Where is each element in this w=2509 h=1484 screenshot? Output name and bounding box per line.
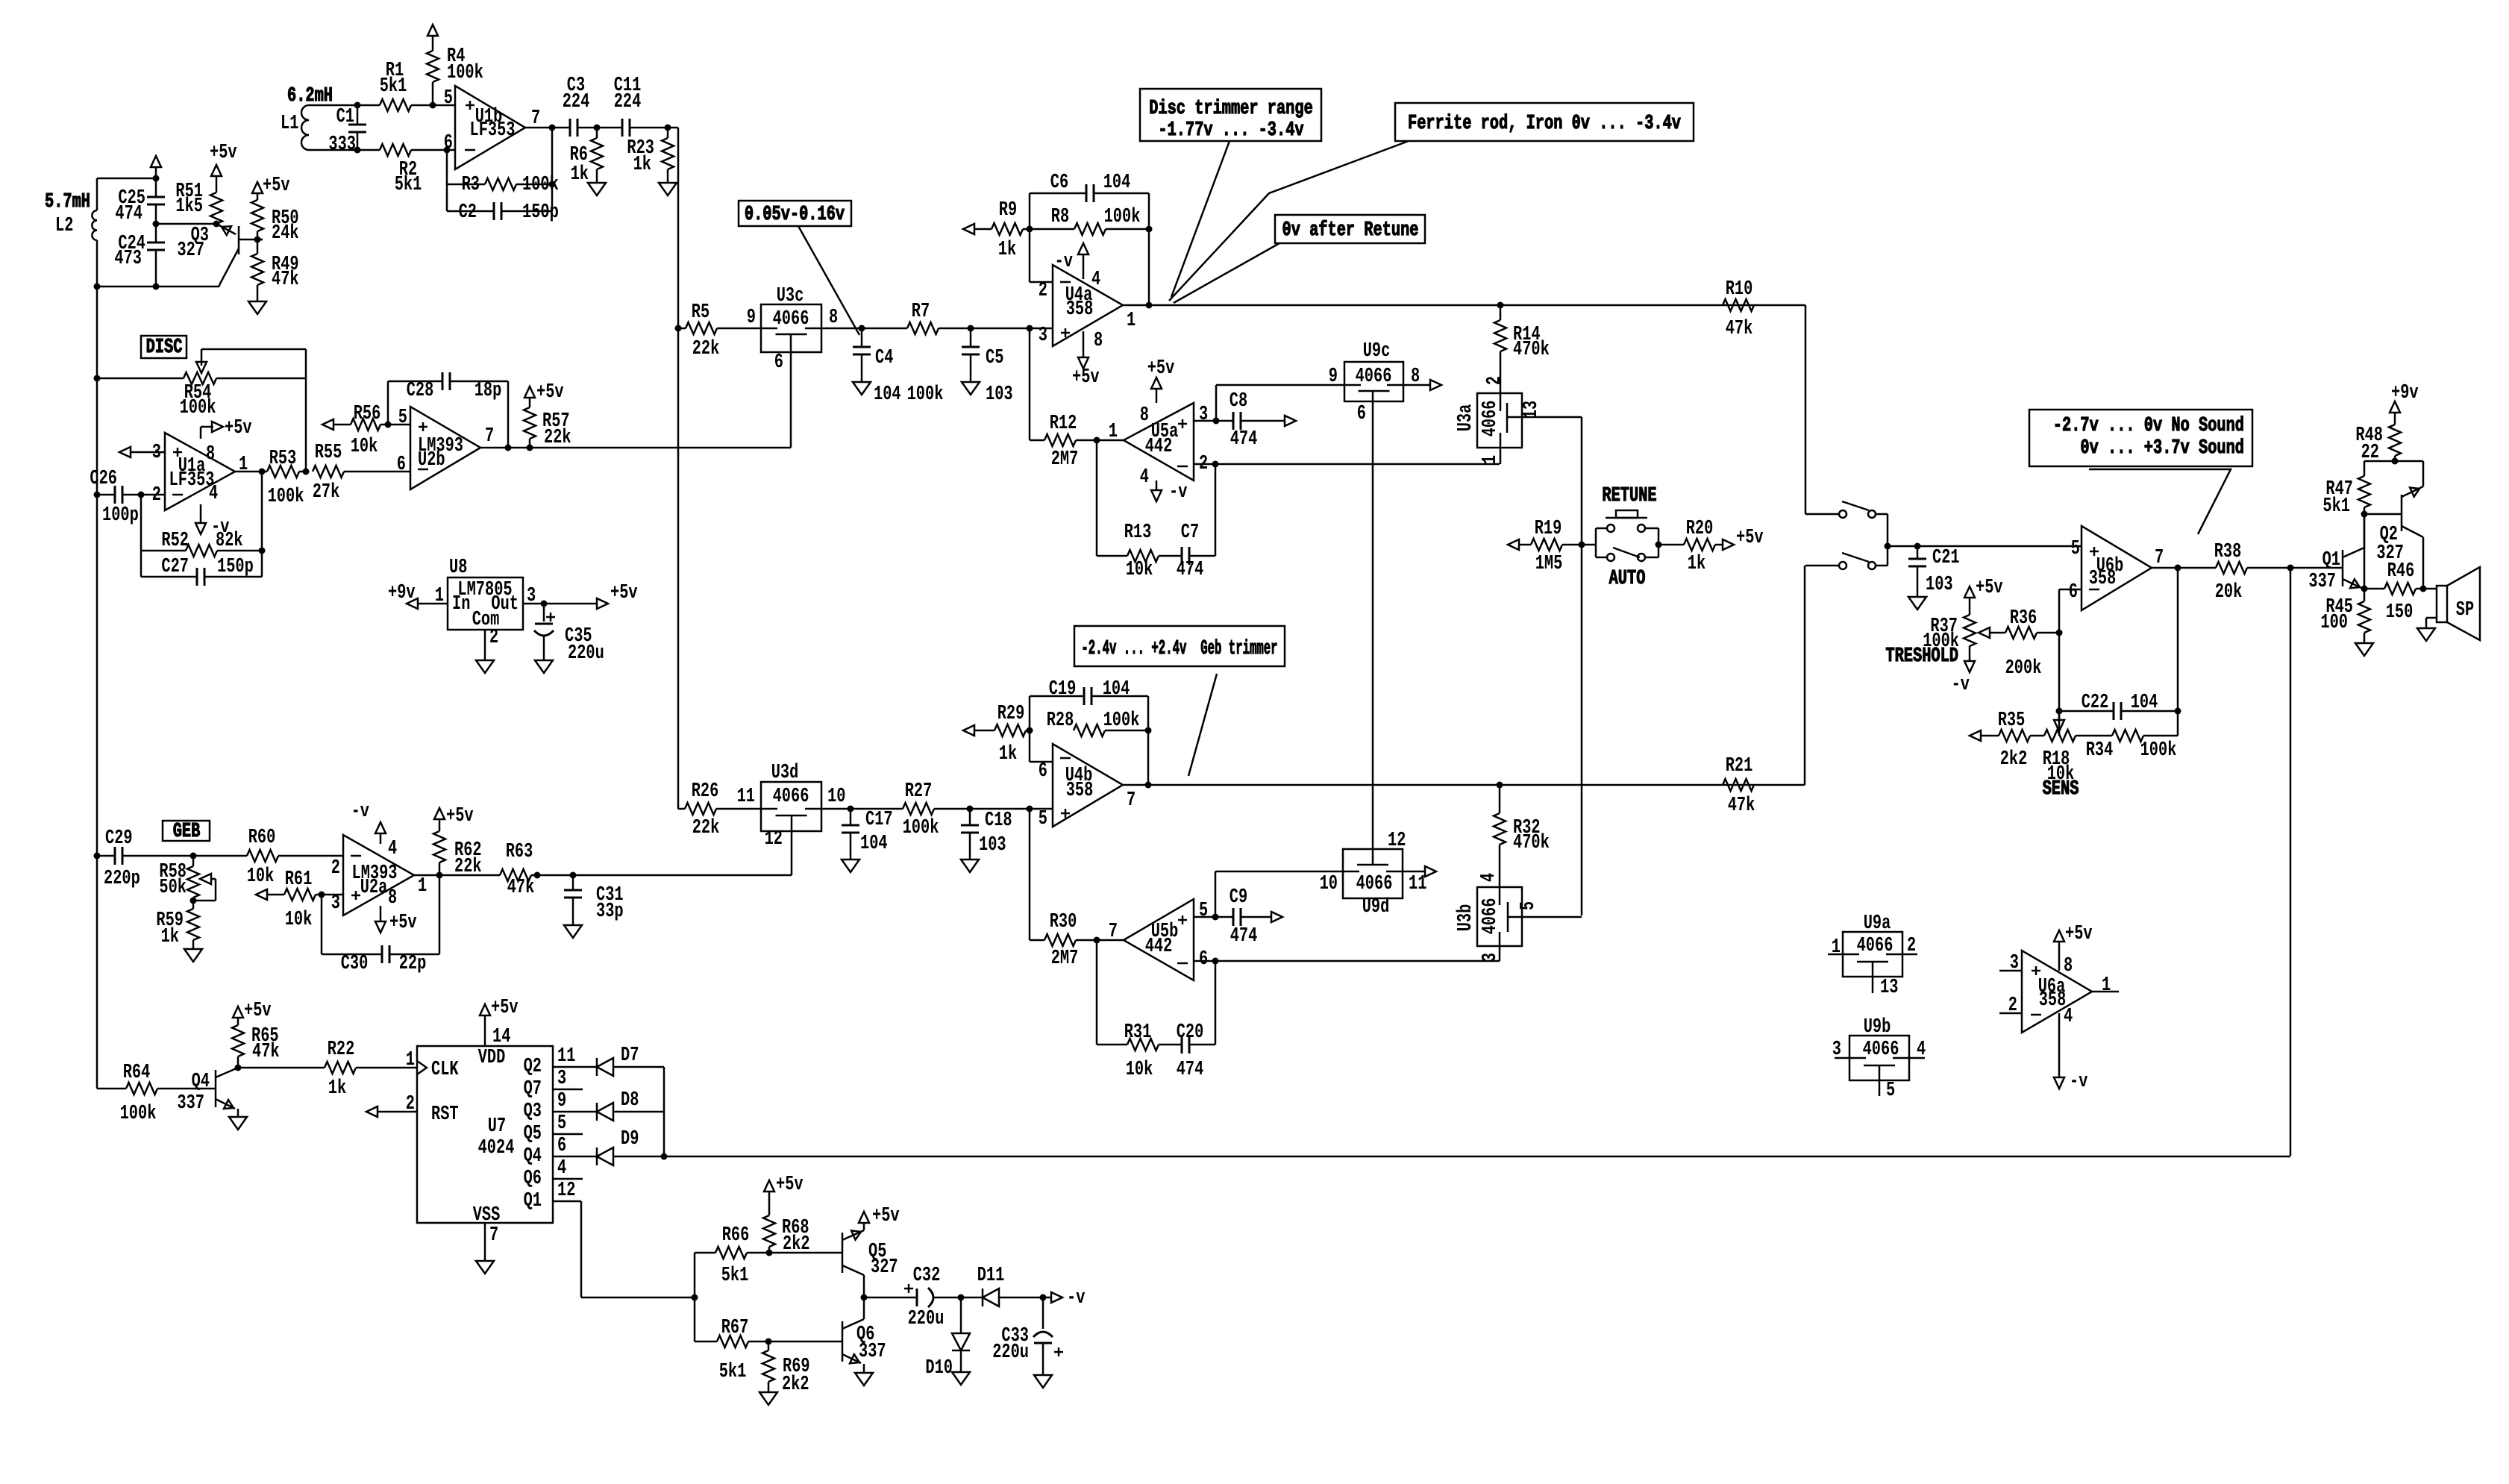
svg-text:9: 9: [557, 1090, 566, 1112]
svg-text:C21: C21: [1932, 547, 1960, 569]
leader line Sound: [2089, 469, 2231, 534]
resistor R57: [524, 407, 571, 451]
wire C6 right to output: [1146, 193, 1153, 309]
wire U4b pin5 node down: [1029, 809, 1031, 940]
wire Q5 pin5: [553, 1112, 583, 1135]
svg-text:6: 6: [2069, 581, 2078, 604]
svg-text:Q7: Q7: [524, 1078, 542, 1101]
svg-text:104: 104: [860, 833, 888, 855]
wire U3d gate stub: [791, 831, 793, 875]
resistor R8: [1030, 206, 1153, 235]
svg-text:2: 2: [1484, 376, 1506, 385]
wire U3c to node: [821, 325, 865, 332]
svg-text:47k: 47k: [272, 269, 299, 291]
resistor R63: [500, 841, 573, 899]
resistor R28: [1047, 710, 1152, 736]
wire node to R51/Q3: [156, 221, 220, 228]
transistor Q1: [2290, 514, 2364, 593]
resistor R35: [1970, 710, 2030, 771]
svg-text:R52: R52: [161, 530, 189, 552]
wire U5b pin6 row: [1194, 958, 1500, 965]
svg-text:13: 13: [1520, 401, 1543, 419]
ground below C5: [962, 382, 980, 395]
svg-text:333: 333: [328, 134, 356, 156]
svg-text:24k: 24k: [272, 222, 299, 245]
svg-text:470k: 470k: [1513, 832, 1550, 854]
counter U7 4024: [406, 1046, 553, 1227]
svg-text:R8: R8: [1051, 206, 1069, 228]
svg-text:104: 104: [1103, 678, 1130, 701]
svg-text:12: 12: [765, 828, 783, 851]
ground below D10: [952, 1372, 970, 1385]
svg-text:3: 3: [527, 585, 536, 607]
svg-text:2k2: 2k2: [782, 1374, 809, 1396]
ground below R6: [588, 183, 606, 195]
resistor R7: [862, 301, 974, 406]
svg-text:-2.7v ... 0v No Sound: -2.7v ... 0v No Sound: [2053, 415, 2244, 437]
svg-text:13: 13: [1880, 977, 1898, 999]
resistor R21: [1723, 755, 1755, 817]
svg-text:D10: D10: [925, 1357, 953, 1380]
op-amp U5b: [1109, 899, 1208, 980]
svg-text:Q1: Q1: [524, 1190, 542, 1212]
svg-text:-2.4v ... +2.4v Geb trimmer: -2.4v ... +2.4v Geb trimmer: [1081, 638, 1277, 660]
resistor R3: [447, 174, 559, 196]
wire U3c gate stub: [790, 352, 792, 448]
power +5v R20: [1723, 527, 1764, 550]
speaker SP: [2426, 567, 2480, 640]
svg-text:6: 6: [444, 132, 453, 154]
svg-text:5k1: 5k1: [380, 75, 407, 98]
capacitor C25: [115, 178, 165, 228]
analog switch U3c: [747, 285, 838, 374]
ground Com U8: [476, 627, 498, 673]
svg-text:4: 4: [557, 1157, 566, 1180]
capacitor C8: [1230, 390, 1285, 451]
power +5v U7: [480, 997, 519, 1048]
input arrow pin3 U1a: [119, 447, 165, 457]
wire long bottom: [664, 1156, 2290, 1158]
svg-text:C26: C26: [90, 468, 117, 490]
resistor R50: [251, 200, 299, 245]
wire retune bus: [1522, 417, 1585, 915]
svg-text:+5v: +5v: [1976, 577, 2003, 599]
svg-text:R28: R28: [1047, 710, 1074, 732]
resistor R59: [156, 901, 199, 949]
svg-text:1: 1: [406, 1049, 415, 1071]
wire pin6: [447, 149, 455, 151]
resistor R52: [141, 530, 266, 557]
svg-text:7: 7: [2155, 547, 2164, 569]
input arrow RST: [366, 1106, 417, 1117]
wire output U1b: [525, 127, 570, 129]
svg-text:1M5: 1M5: [1535, 553, 1563, 575]
wire bottom rail: [94, 284, 220, 290]
resistor R45: [2320, 589, 2370, 643]
power +5v U5a: [1147, 357, 1175, 403]
svg-text:Disc trimmer range: Disc trimmer range: [1149, 98, 1313, 120]
svg-text:C29: C29: [105, 827, 133, 850]
svg-text:1: 1: [1109, 421, 1118, 443]
capacitor C32: [864, 1265, 965, 1330]
svg-text:1k: 1k: [998, 239, 1016, 261]
svg-text:+5v: +5v: [872, 1205, 900, 1227]
svg-text:C7: C7: [1181, 522, 1199, 544]
svg-text:VSS: VSS: [473, 1204, 501, 1227]
svg-text:R12: R12: [1050, 413, 1077, 435]
switch RETUNE: [1582, 485, 1684, 561]
svg-text:33p: 33p: [596, 901, 624, 923]
svg-text:224: 224: [614, 91, 642, 113]
svg-text:3: 3: [1199, 404, 1208, 426]
svg-text:LF353: LF353: [470, 119, 516, 142]
ground VSS U7: [476, 1223, 498, 1274]
power +5v pin8 U1a: [201, 417, 252, 466]
svg-text:14: 14: [492, 1026, 510, 1048]
op-amp U2b: [397, 407, 494, 489]
resistor R49: [251, 239, 299, 301]
svg-text:337: 337: [177, 1092, 204, 1115]
wire to U9c: [1216, 385, 1344, 421]
svg-text:R56: R56: [354, 403, 381, 425]
svg-text:D11: D11: [977, 1265, 1005, 1287]
svg-text:Q2: Q2: [524, 1056, 542, 1078]
resistor R32: [1494, 785, 1550, 887]
svg-text:0v after Retune: 0v after Retune: [1282, 219, 1419, 242]
callout Ferrite rod: [1395, 103, 1694, 141]
svg-text:2M7: 2M7: [1051, 948, 1079, 970]
svg-text:C19: C19: [1049, 678, 1077, 701]
svg-text:100k: 100k: [180, 397, 216, 419]
svg-text:+5v: +5v: [776, 1174, 804, 1196]
inductor L1: [281, 105, 357, 150]
wire base row: [2361, 514, 2368, 592]
resistor R69: [762, 1341, 810, 1396]
svg-text:-v: -v: [351, 801, 369, 823]
analog switch U9a: [1828, 912, 1917, 999]
capacitor C5: [962, 328, 1013, 406]
svg-text:100k: 100k: [2140, 739, 2177, 762]
svg-text:2: 2: [1907, 935, 1916, 957]
transistor Q5: [842, 1223, 898, 1301]
label 6.2mH: [287, 85, 333, 107]
svg-text:R38: R38: [2214, 541, 2242, 563]
svg-text:7: 7: [1127, 789, 1136, 812]
capacitor C22: [2059, 692, 2178, 720]
capacitor C9: [1230, 886, 1271, 948]
svg-text:1: 1: [418, 875, 427, 898]
svg-text:R22: R22: [328, 1039, 355, 1061]
resistor R68: [763, 1215, 810, 1256]
svg-text:8: 8: [1140, 404, 1149, 427]
analog switch U9b: [1832, 1016, 1926, 1102]
power +5v R50: [252, 175, 290, 200]
svg-text:R19: R19: [1535, 518, 1562, 540]
ground below C33: [1034, 1375, 1052, 1388]
svg-text:Q4: Q4: [192, 1071, 210, 1093]
svg-text:47k: 47k: [1726, 318, 1753, 340]
svg-text:R21: R21: [1726, 755, 1753, 777]
svg-text:4066: 4066: [1857, 935, 1894, 957]
label AUTO: [1609, 568, 1646, 590]
resistor R60: [193, 827, 343, 888]
wire U5a pin3 row: [1194, 418, 1233, 425]
svg-text:0.05v-0.16v: 0.05v-0.16v: [745, 204, 845, 226]
svg-text:C27: C27: [161, 556, 189, 578]
power -v U6a: [2054, 1006, 2087, 1093]
svg-text:R26: R26: [692, 780, 719, 803]
ground below C35: [535, 660, 553, 673]
svg-text:3: 3: [2010, 952, 2019, 974]
resistor R61: [256, 868, 343, 931]
wire U9 gate line: [1372, 391, 1374, 865]
resistor R19: [1508, 518, 1582, 575]
resistor R56: [322, 403, 410, 458]
svg-text:4: 4: [1478, 873, 1500, 882]
svg-text:50k: 50k: [159, 877, 187, 899]
svg-text:R27: R27: [905, 780, 933, 803]
resistor R2: [357, 144, 451, 196]
svg-text:U7: U7: [488, 1115, 506, 1138]
svg-text:4066: 4066: [1479, 401, 1502, 437]
resistor R62: [433, 831, 482, 879]
regulator U8 LM7805: [448, 557, 523, 631]
svg-text:100p: 100p: [102, 504, 139, 527]
diode D9: [597, 1128, 664, 1165]
ground below C31: [564, 925, 582, 938]
svg-text:R67: R67: [721, 1317, 749, 1339]
svg-text:RST: RST: [431, 1103, 459, 1126]
node DISC pot: [94, 375, 101, 382]
svg-text:5: 5: [1199, 900, 1208, 922]
capacitor C27: [141, 556, 262, 586]
ground below C18: [961, 860, 979, 872]
ground below R45: [2355, 643, 2373, 656]
resistor R48: [2355, 425, 2401, 465]
op-amp U6a: [1999, 951, 2119, 1033]
svg-text:4: 4: [388, 838, 397, 860]
svg-text:L1: L1: [281, 113, 298, 135]
svg-text:22k: 22k: [692, 817, 720, 839]
resistor R38: [2152, 541, 2294, 604]
svg-text:47k: 47k: [1728, 795, 1755, 817]
svg-text:-1.77v ... -3.4v: -1.77v ... -3.4v: [1158, 119, 1303, 142]
diode D11: [961, 1265, 1047, 1306]
resistor R6: [570, 128, 603, 186]
svg-text:473: 473: [114, 248, 142, 270]
wire U5a pin2 row: [1194, 461, 1500, 468]
wire Q6 pin4: [553, 1157, 583, 1180]
ground below R59: [184, 949, 202, 962]
analog switch U3d: [737, 762, 846, 851]
resistor R65: [232, 1025, 280, 1063]
svg-text:3: 3: [1039, 325, 1047, 347]
callout No Sound Sound: [2029, 410, 2252, 466]
svg-text:5k1: 5k1: [395, 174, 422, 196]
wire R67 to Q6: [768, 1341, 842, 1343]
svg-text:442: 442: [1145, 436, 1173, 458]
svg-text:474: 474: [1230, 925, 1258, 948]
arrow C8 out: [1285, 416, 1296, 426]
svg-text:C2: C2: [459, 201, 477, 224]
svg-text:12: 12: [1388, 830, 1406, 852]
power +5v R62: [434, 805, 474, 831]
svg-text:82k: 82k: [216, 530, 243, 552]
wire R68 to Q5: [769, 1252, 842, 1254]
svg-text:5.7mH: 5.7mH: [45, 191, 90, 213]
svg-text:+5v: +5v: [446, 805, 474, 827]
main signal bus: [675, 128, 682, 809]
svg-text:7: 7: [1109, 921, 1118, 943]
capacitor C21: [1908, 546, 1960, 597]
svg-text:220p: 220p: [104, 868, 140, 890]
analog switch U9d: [1320, 830, 1427, 918]
svg-text:5k1: 5k1: [721, 1265, 749, 1287]
analog switch U9c: [1329, 340, 1420, 425]
wire pin6 U6b: [2056, 589, 2082, 736]
svg-text:5: 5: [1039, 808, 1047, 830]
svg-text:4066: 4066: [1479, 898, 1502, 935]
svg-text:27k: 27k: [313, 481, 340, 504]
power arrow R4: [427, 25, 438, 51]
potentiometer R18 wiper: [2054, 711, 2064, 731]
diode D10: [925, 1297, 970, 1380]
svg-text:327: 327: [871, 1256, 898, 1279]
capacitor C11: [597, 75, 671, 137]
wire U4a output row: [1123, 302, 1805, 309]
wire diode bus: [661, 1067, 668, 1160]
svg-text:10k: 10k: [1126, 1059, 1153, 1081]
wire bus to R26: [678, 808, 685, 810]
svg-text:20k: 20k: [2215, 581, 2243, 604]
wire to U4a pin3: [971, 325, 1053, 332]
svg-text:150: 150: [2386, 601, 2414, 624]
ground below C21: [1908, 597, 1926, 610]
wire pin5: [433, 104, 455, 107]
svg-text:18p: 18p: [474, 380, 502, 402]
svg-text:+5v: +5v: [244, 1000, 272, 1022]
wire Q1 pin12: [553, 1180, 695, 1297]
wire U3a pin1 stub: [1500, 433, 1502, 464]
transistor Q3: [177, 224, 263, 287]
svg-text:C18: C18: [985, 810, 1012, 832]
svg-text:D9: D9: [621, 1128, 639, 1150]
wire U2a out: [414, 874, 500, 877]
svg-text:U2a: U2a: [360, 877, 388, 899]
svg-text:7: 7: [531, 107, 540, 130]
svg-text:6: 6: [1357, 403, 1366, 425]
wire output to bus: [668, 127, 678, 129]
svg-text:220u: 220u: [908, 1308, 945, 1330]
svg-text:8: 8: [206, 443, 215, 466]
op-amp U1b: [444, 86, 540, 169]
power -v U4a: [1055, 243, 1101, 291]
svg-text:C17: C17: [865, 809, 893, 831]
wire U4b output row: [1123, 782, 1805, 789]
analog switch U3a: [1455, 376, 1543, 464]
wire R21 to switch: [1804, 566, 1806, 785]
svg-text:8: 8: [388, 887, 397, 910]
wire Q3 pin9: [553, 1090, 597, 1112]
svg-text:In: In: [452, 593, 470, 616]
resistor R53: [235, 448, 310, 508]
power +5v R68: [764, 1174, 804, 1215]
svg-text:-v: -v: [1067, 1287, 1085, 1309]
svg-text:-v: -v: [1169, 481, 1187, 504]
ground below Q4: [229, 1117, 247, 1130]
wire feedback right: [549, 125, 556, 212]
svg-text:2: 2: [489, 627, 498, 649]
svg-text:GEB: GEB: [173, 821, 201, 843]
power +5v U6a: [2054, 923, 2093, 977]
capacitor C2: [447, 201, 559, 224]
svg-text:R55: R55: [315, 442, 342, 464]
capacitor C29: [97, 827, 197, 890]
svg-text:358: 358: [2089, 568, 2117, 590]
svg-text:4066: 4066: [1863, 1039, 1899, 1061]
diode D7: [597, 1045, 664, 1076]
svg-text:4: 4: [2064, 1006, 2073, 1028]
resistor R47: [2322, 461, 2370, 518]
power -v U2a: [351, 801, 398, 860]
transistor Q4: [177, 1056, 241, 1117]
svg-text:1: 1: [1127, 310, 1136, 332]
svg-text:C32: C32: [913, 1265, 941, 1287]
op-amp U2a: [331, 835, 427, 915]
svg-text:3: 3: [557, 1068, 566, 1090]
svg-text:327: 327: [177, 239, 204, 262]
arrow U9d out: [1403, 866, 1436, 877]
svg-text:R5: R5: [692, 301, 710, 324]
svg-text:C30: C30: [341, 953, 369, 975]
wire Q7 pin3: [553, 1068, 583, 1090]
capacitor C17: [842, 809, 893, 860]
svg-text:Q6: Q6: [524, 1168, 542, 1190]
wire Q4 pin6: [553, 1135, 597, 1157]
net label DISC box: [141, 336, 187, 359]
resistor R23: [627, 128, 674, 183]
svg-text:C5: C5: [986, 347, 1003, 369]
resistor R22: [238, 1039, 417, 1100]
capacitor C19: [1030, 678, 1148, 730]
svg-text:R7: R7: [912, 301, 930, 323]
wire to U9d: [1215, 871, 1343, 917]
svg-text:R60: R60: [248, 827, 276, 849]
resistor R10: [1723, 278, 1754, 340]
svg-text:U9d: U9d: [1362, 896, 1390, 918]
svg-text:10: 10: [1320, 873, 1338, 895]
node GEB row: [94, 853, 101, 860]
resistor R55: [313, 442, 410, 504]
svg-text:+5v: +5v: [610, 582, 638, 604]
svg-text:11: 11: [557, 1045, 575, 1068]
svg-text:470k: 470k: [1513, 339, 1550, 361]
svg-text:4: 4: [1091, 269, 1100, 291]
op-amp U1a: [152, 433, 248, 510]
svg-text:4066: 4066: [1356, 366, 1392, 388]
left bus wire: [96, 287, 98, 1089]
svg-text:47k: 47k: [252, 1041, 280, 1063]
svg-text:U3b: U3b: [1455, 904, 1477, 932]
capacitor C18: [961, 809, 1012, 860]
wire U3b pin3 stub: [1499, 932, 1501, 961]
potentiometer R37 TRESHOLD: [1885, 577, 2005, 696]
capacitor C24: [114, 224, 165, 290]
leader line Ferrite rod: [1169, 141, 1409, 301]
svg-text:VDD: VDD: [478, 1047, 506, 1069]
wire R48 node: [2364, 460, 2423, 463]
svg-text:200k: 200k: [2005, 657, 2042, 680]
